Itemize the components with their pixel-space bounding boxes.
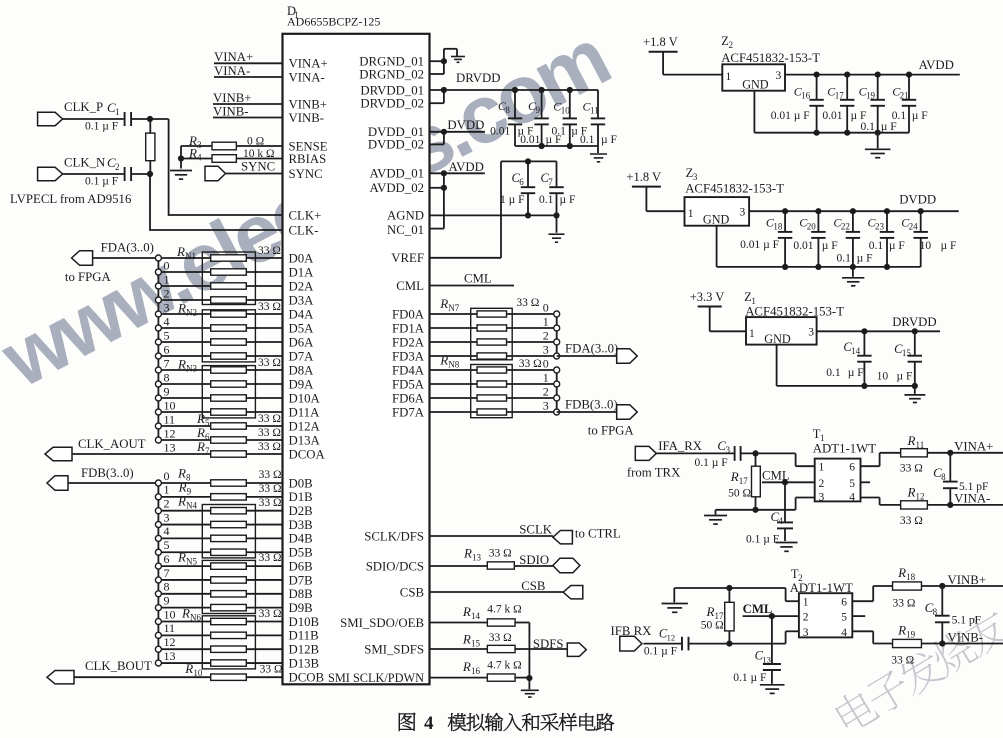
svg-text:VINB+: VINB+: [948, 573, 987, 587]
ground Z1 caps: [904, 394, 925, 396]
wire IFB_RX to C12: [643, 643, 681, 645]
wire IFA_RX to C3: [656, 452, 734, 454]
svg-text:33 Ω: 33 Ω: [258, 357, 281, 369]
svg-text:13: 13: [762, 655, 771, 665]
svg-text:0.1 µ F: 0.1 µ F: [733, 672, 766, 684]
svg-text:5: 5: [841, 612, 847, 624]
svg-text:8: 8: [186, 473, 191, 483]
svg-text:R: R: [706, 604, 715, 619]
svg-text:3: 3: [725, 445, 730, 455]
wire T1 pin4 to R12: [861, 497, 880, 499]
svg-text:N6: N6: [190, 613, 201, 623]
svg-text:33 Ω: 33 Ω: [258, 413, 281, 425]
svg-text:6: 6: [841, 597, 847, 609]
svg-text:19: 19: [906, 630, 916, 640]
svg-text:33 Ω: 33 Ω: [489, 632, 512, 644]
svg-text:D12B: D12B: [289, 643, 320, 657]
svg-text:GND: GND: [764, 332, 791, 346]
svg-text:R: R: [439, 296, 448, 311]
ground at R3 R4: [170, 170, 192, 172]
wire CLK-: [150, 174, 283, 230]
svg-text:33 Ω: 33 Ω: [258, 441, 281, 453]
connector SDIO: [553, 558, 580, 573]
svg-text:1: 1: [115, 107, 120, 117]
svg-text:CLK_BOUT: CLK_BOUT: [85, 659, 152, 673]
wire SCLK: [430, 535, 553, 537]
svg-text:1: 1: [164, 273, 170, 287]
connector CLK_AOUT: [45, 447, 72, 460]
svg-text:SDIO/DCS: SDIO/DCS: [366, 559, 424, 573]
svg-text:AVDD_01: AVDD_01: [369, 167, 424, 181]
wire CLK_N to C2: [63, 173, 124, 175]
svg-text:33 Ω: 33 Ω: [259, 483, 282, 495]
resistor network RN2: [177, 301, 281, 362]
svg-text:N5: N5: [186, 557, 197, 567]
svg-text:N2: N2: [186, 308, 197, 318]
svg-text:7: 7: [205, 446, 210, 456]
connector CLK_P: [38, 112, 63, 125]
svg-text:2: 2: [543, 385, 549, 399]
svg-text:CML: CML: [743, 602, 773, 616]
svg-text:FD6A: FD6A: [392, 391, 425, 405]
wire R19 to VINB-: [921, 643, 1003, 645]
transformer T2 ADT1-1WT: [790, 567, 853, 639]
wire FDA out: [557, 355, 617, 357]
svg-text:D13B: D13B: [289, 656, 320, 670]
node VINA-: [214, 64, 283, 78]
ground Z3 caps: [842, 277, 864, 279]
connector IFA_RX: [635, 446, 656, 460]
connector SYNC: [205, 166, 226, 181]
wire +1.8V to Z3: [645, 187, 647, 212]
svg-text:N4: N4: [186, 501, 197, 511]
wire bus A taps to chip: [161, 258, 282, 440]
ground drvdd caps: [590, 153, 607, 155]
ground DRGND: [451, 56, 465, 58]
svg-text:0.1: 0.1: [861, 121, 876, 133]
wire SYNC: [226, 173, 283, 175]
wire FDB bus: [68, 482, 158, 484]
svg-text:µ F: µ F: [889, 240, 905, 252]
svg-text:3: 3: [819, 491, 825, 503]
svg-text:D3B: D3B: [289, 518, 313, 532]
svg-text:13: 13: [164, 649, 176, 663]
ground R16: [521, 689, 539, 691]
svg-text:1: 1: [819, 462, 825, 474]
resistor network RN4: [177, 494, 282, 558]
svg-text:SCLK: SCLK: [519, 523, 552, 537]
svg-text:9: 9: [164, 593, 170, 607]
node VINA+: [214, 50, 283, 64]
svg-text:33 Ω: 33 Ω: [258, 427, 281, 439]
svg-text:DRGND_02: DRGND_02: [359, 67, 424, 81]
svg-text:R: R: [907, 485, 916, 500]
connector FDA(3..0) out: [617, 349, 638, 364]
svg-text:N7: N7: [448, 303, 459, 313]
svg-text:50 Ω: 50 Ω: [701, 620, 724, 632]
connector FDB(3..0) out: [617, 405, 638, 420]
svg-text:33 Ω: 33 Ω: [258, 245, 281, 257]
svg-text:R: R: [897, 565, 906, 580]
wire CML to C4: [784, 482, 786, 522]
bus B vertical: [157, 483, 159, 663]
svg-text:AVDD: AVDD: [919, 58, 954, 72]
wire Z3 out rail: [749, 210, 959, 212]
wire AGND rail: [430, 214, 557, 216]
svg-text:33 Ω: 33 Ω: [519, 358, 542, 370]
svg-text:CLK_AOUT: CLK_AOUT: [78, 437, 146, 451]
svg-text:R: R: [184, 661, 193, 676]
svg-text:10: 10: [164, 607, 176, 621]
svg-text:SDFS: SDFS: [533, 637, 564, 651]
svg-text:1: 1: [726, 71, 732, 83]
svg-text:5: 5: [205, 418, 210, 428]
wire CLK_AOUT: [72, 453, 211, 455]
svg-text:FD5A: FD5A: [392, 377, 425, 391]
svg-text:R: R: [177, 494, 186, 509]
svg-text:0.1 µ F: 0.1 µ F: [746, 534, 779, 546]
wire R12 to VINA-: [927, 504, 1003, 506]
resistor network RN7: [439, 296, 539, 360]
resistor network RN1: [176, 244, 281, 305]
svg-text:R: R: [178, 480, 187, 495]
svg-text:10: 10: [561, 106, 571, 116]
svg-text:0.1: 0.1: [552, 126, 567, 138]
svg-text:11: 11: [590, 106, 599, 116]
svg-text:IFA_RX: IFA_RX: [658, 439, 703, 453]
svg-text:15: 15: [471, 639, 481, 649]
svg-text:D4A: D4A: [289, 307, 315, 321]
svg-text:D7B: D7B: [289, 573, 313, 587]
ground T1: [704, 515, 727, 517]
svg-text:13: 13: [472, 553, 482, 563]
wire drvdd cap gnd rail: [515, 145, 598, 147]
svg-text:+1.8 V: +1.8 V: [626, 170, 661, 184]
resistor network RN6: [181, 606, 282, 669]
svg-text:D2B: D2B: [289, 504, 313, 518]
svg-text:0.1: 0.1: [892, 110, 907, 122]
svg-text:1: 1: [749, 328, 755, 340]
svg-text:8: 8: [941, 472, 946, 482]
wire Z1 gnd rail: [776, 345, 778, 386]
svg-text:R: R: [907, 433, 916, 448]
svg-text:11: 11: [164, 413, 176, 427]
svg-text:10: 10: [193, 668, 203, 678]
svg-text:4: 4: [849, 491, 855, 503]
wire CSB: [430, 591, 564, 593]
svg-text:0.01: 0.01: [793, 240, 813, 252]
svg-text:33 Ω: 33 Ω: [259, 608, 282, 620]
svg-text:CML: CML: [464, 272, 492, 286]
svg-text:D9B: D9B: [289, 601, 313, 615]
svg-text:3: 3: [197, 140, 202, 150]
ferrite Z3 ACF451832-153-T: [685, 166, 785, 226]
svg-text:FD2A: FD2A: [392, 335, 425, 349]
svg-text:8: 8: [164, 371, 170, 385]
wire T1 pin5 stub: [861, 481, 871, 483]
svg-text:DRVDD: DRVDD: [892, 315, 936, 329]
wire T2 pin6 to R18: [852, 600, 873, 602]
wire Z2 out rail: [785, 74, 960, 76]
svg-text:9: 9: [164, 385, 170, 399]
svg-text:LVPECL from AD9516: LVPECL from AD9516: [10, 192, 132, 206]
svg-text:4.7 k Ω: 4.7 k Ω: [487, 604, 521, 616]
svg-text:23: 23: [875, 222, 885, 232]
svg-text:33 Ω: 33 Ω: [893, 598, 916, 610]
svg-text:D5B: D5B: [289, 546, 313, 560]
wire agnd stub: [556, 215, 558, 232]
svg-text:4: 4: [424, 713, 434, 734]
connector FDA(3..0) to FPGA: [72, 251, 93, 266]
svg-text:0.1 µ F: 0.1 µ F: [644, 646, 677, 658]
wire bus B taps to chip: [161, 483, 282, 663]
svg-text:0 Ω: 0 Ω: [247, 136, 264, 148]
svg-text:ACF451832-153-T: ACF451832-153-T: [685, 182, 784, 196]
svg-text:7: 7: [164, 357, 170, 371]
svg-text:4: 4: [164, 315, 170, 329]
resistor network RN8: [439, 353, 541, 418]
svg-text:CLK_N: CLK_N: [64, 156, 105, 170]
node VINB-: [213, 105, 283, 119]
wire DRVDD rail: [430, 102, 444, 104]
svg-text:µ F: µ F: [897, 371, 913, 383]
svg-text:FDB(3..0): FDB(3..0): [81, 466, 134, 480]
svg-text:3: 3: [543, 399, 549, 413]
wire R16 gnd stub: [528, 678, 530, 689]
svg-text:D11B: D11B: [289, 629, 319, 643]
svg-text:8: 8: [164, 580, 170, 594]
svg-text:DRVDD_01: DRVDD_01: [360, 83, 424, 97]
svg-text:33 Ω: 33 Ω: [489, 548, 512, 560]
svg-text:33 Ω: 33 Ω: [259, 497, 282, 509]
svg-text:µ F: µ F: [881, 121, 897, 133]
svg-text:FD4A: FD4A: [392, 363, 425, 377]
svg-text:D0B: D0B: [289, 476, 313, 490]
svg-text:33 Ω: 33 Ω: [891, 655, 914, 667]
wire +3.3V to Z1: [709, 307, 711, 332]
svg-text:3: 3: [776, 70, 782, 82]
svg-text:SYNC: SYNC: [289, 167, 323, 181]
resistor network RN3: [177, 357, 281, 418]
svg-text:VINB+: VINB+: [289, 97, 328, 111]
svg-text:D8A: D8A: [289, 363, 315, 377]
svg-text:0.1 µ F: 0.1 µ F: [85, 121, 118, 133]
svg-text:0: 0: [164, 469, 170, 483]
svg-text:0.01 µ F: 0.01 µ F: [740, 239, 779, 251]
svg-text:to FPGA: to FPGA: [65, 270, 112, 284]
svg-text:FDA(3..0): FDA(3..0): [101, 241, 154, 255]
svg-text:2: 2: [115, 162, 120, 172]
svg-text:SCLK/DFS: SCLK/DFS: [364, 529, 424, 543]
svg-text:4.7 k Ω: 4.7 k Ω: [487, 660, 521, 672]
svg-text:2: 2: [819, 478, 825, 490]
svg-text:R: R: [462, 604, 471, 619]
svg-text:2: 2: [728, 40, 733, 50]
svg-text:33 Ω: 33 Ω: [259, 552, 282, 564]
svg-text:D6B: D6B: [289, 559, 313, 573]
svg-text:GND: GND: [703, 212, 730, 226]
svg-text:3: 3: [740, 207, 746, 219]
svg-text:0.01 µ F: 0.01 µ F: [771, 110, 810, 122]
wire Z2 gnd rail: [753, 91, 755, 133]
svg-text:33 Ω: 33 Ω: [258, 301, 281, 313]
svg-text:2: 2: [164, 497, 170, 511]
svg-text:µ F: µ F: [941, 240, 957, 252]
svg-text:VINA+: VINA+: [289, 56, 328, 70]
node FDA out taps: [543, 301, 560, 360]
svg-text:ACF451832-153-T: ACF451832-153-T: [721, 51, 820, 65]
svg-text:AGND: AGND: [387, 209, 424, 223]
svg-text:AVDD: AVDD: [449, 160, 484, 174]
svg-text:µ F: µ F: [857, 253, 873, 265]
node bus B taps 0-13: [155, 469, 175, 666]
svg-text:to FPGA: to FPGA: [588, 424, 635, 438]
svg-text:CSB: CSB: [521, 579, 545, 593]
svg-text:VINA-: VINA-: [954, 492, 990, 506]
wire DVDD: [430, 143, 444, 145]
svg-text:to CTRL: to CTRL: [575, 527, 621, 541]
svg-text:4: 4: [841, 627, 847, 639]
wire R3 R4 junction: [180, 146, 182, 169]
svg-text:0.1: 0.1: [580, 134, 595, 146]
svg-text:14: 14: [471, 611, 481, 621]
svg-text:from TRX: from TRX: [627, 466, 681, 480]
svg-text:FD1A: FD1A: [392, 321, 425, 335]
svg-text:0.01: 0.01: [822, 110, 842, 122]
caption 图4 模拟输入和采样电路: [399, 713, 614, 734]
svg-text:D13A: D13A: [289, 433, 321, 447]
node bus A taps 0-13: [155, 255, 175, 455]
node VINB+: [213, 91, 283, 105]
svg-text:0.1 µ F: 0.1 µ F: [695, 457, 728, 469]
svg-text:D0A: D0A: [289, 251, 315, 265]
svg-text:D8B: D8B: [289, 587, 313, 601]
svg-text:12: 12: [667, 633, 676, 643]
svg-text:+3.3 V: +3.3 V: [690, 290, 725, 304]
svg-text:DRVDD_02: DRVDD_02: [360, 97, 424, 111]
ground C13: [760, 684, 785, 686]
wire DRGND tie: [430, 60, 444, 62]
svg-text:VINB+: VINB+: [213, 91, 252, 105]
svg-text:IFB RX: IFB RX: [611, 624, 653, 638]
svg-text:VINB-: VINB-: [213, 105, 249, 119]
ferrite Z1 ACF451832-153-T: [744, 290, 844, 346]
svg-text:CLK-: CLK-: [289, 223, 319, 237]
svg-text:1: 1: [164, 483, 170, 497]
svg-text:VINB-: VINB-: [948, 631, 984, 645]
svg-text:R: R: [730, 469, 739, 484]
svg-text:CLK_P: CLK_P: [64, 100, 103, 114]
wire CLK+: [169, 119, 283, 215]
svg-text:µ F: µ F: [601, 134, 617, 146]
svg-text:SDIO: SDIO: [519, 553, 549, 567]
connector CLK_N: [38, 167, 63, 180]
svg-text:R: R: [181, 606, 190, 621]
svg-text:DVDD_02: DVDD_02: [368, 138, 424, 152]
ground Z2 caps: [865, 148, 891, 150]
svg-text:6: 6: [519, 177, 524, 187]
svg-text:0.1: 0.1: [539, 194, 554, 206]
svg-text:DCOA: DCOA: [289, 447, 326, 461]
svg-text:11: 11: [164, 621, 176, 635]
svg-text:RBIAS: RBIAS: [289, 152, 327, 166]
svg-text:6: 6: [205, 432, 210, 442]
svg-text:1: 1: [543, 371, 549, 385]
svg-text:D3A: D3A: [289, 293, 315, 307]
svg-text:VINA-: VINA-: [214, 64, 250, 78]
svg-text:VINA+: VINA+: [954, 440, 993, 454]
svg-text:DCOB: DCOB: [289, 671, 325, 685]
svg-text:µ F: µ F: [822, 240, 838, 252]
watermark 电子发烧友: [832, 605, 1003, 735]
svg-text:1: 1: [543, 315, 549, 329]
wire C12 to T2 pin3: [688, 643, 786, 645]
wire VREF to caps: [430, 257, 502, 259]
wire +1.8V to Z2: [662, 52, 664, 75]
wire CLK_P to C1: [63, 118, 124, 120]
svg-text:33 Ω: 33 Ω: [900, 515, 923, 527]
svg-text:D4B: D4B: [289, 532, 313, 546]
connector SCLK to CTRL: [553, 531, 573, 544]
connector CSB: [563, 586, 583, 599]
svg-text:3: 3: [693, 172, 698, 182]
svg-text:D1B: D1B: [289, 490, 313, 504]
svg-text:R: R: [897, 623, 906, 638]
svg-text:14: 14: [851, 346, 861, 356]
svg-text:10: 10: [164, 399, 176, 413]
svg-text:VREF: VREF: [391, 251, 424, 265]
svg-text:CML: CML: [396, 279, 424, 293]
resistor network RN5: [177, 550, 282, 614]
wire R11 to VINA+: [927, 452, 1003, 454]
svg-text:0.1: 0.1: [869, 240, 884, 252]
svg-text:D10A: D10A: [289, 391, 321, 405]
svg-text:10: 10: [877, 371, 889, 383]
wire R14 to R16 rail: [528, 623, 530, 679]
svg-text:2: 2: [543, 329, 549, 343]
svg-text:NC_01: NC_01: [387, 223, 424, 237]
svg-text:µ F: µ F: [560, 194, 576, 206]
svg-text:FD3A: FD3A: [392, 349, 425, 363]
svg-text:AVDD_02: AVDD_02: [369, 181, 424, 195]
svg-text:D1A: D1A: [289, 265, 315, 279]
transformer T1 ADT1-1WT: [813, 427, 876, 503]
svg-text:D11A: D11A: [289, 405, 321, 419]
connector SDFS: [567, 643, 586, 656]
svg-text:18: 18: [906, 572, 916, 582]
svg-text:R: R: [439, 353, 448, 368]
svg-text:D7A: D7A: [289, 349, 315, 363]
svg-text:7: 7: [548, 177, 553, 187]
svg-text:9: 9: [535, 105, 540, 115]
svg-text:µ F: µ F: [912, 110, 928, 122]
svg-text:CLK+: CLK+: [289, 208, 322, 222]
svg-text:22: 22: [841, 222, 850, 232]
svg-text:N3: N3: [186, 364, 197, 374]
svg-text:5.1 pF: 5.1 pF: [952, 615, 981, 627]
svg-text:16: 16: [801, 91, 811, 101]
svg-text:N8: N8: [448, 360, 459, 370]
svg-text:12: 12: [916, 492, 925, 502]
wire CML to C13: [771, 616, 773, 665]
wire AVDD tie: [430, 172, 485, 174]
svg-text:VINA+: VINA+: [214, 50, 253, 64]
svg-text:18: 18: [773, 222, 783, 232]
wire R18 to VINB+: [921, 585, 1003, 587]
wire T2 pin4 to R19: [852, 630, 873, 632]
svg-text:VINA-: VINA-: [289, 70, 325, 84]
wire C2 to node: [132, 173, 150, 175]
